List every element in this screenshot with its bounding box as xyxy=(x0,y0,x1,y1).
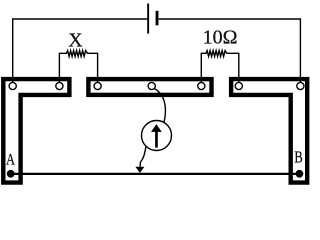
svg-text:A: A xyxy=(6,151,15,168)
svg-text:B: B xyxy=(294,148,302,167)
svg-text:10Ω: 10Ω xyxy=(203,27,238,49)
svg-text:X: X xyxy=(68,30,83,52)
